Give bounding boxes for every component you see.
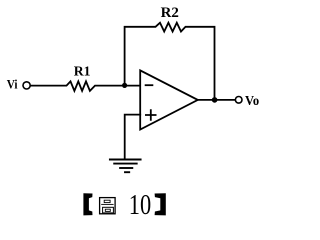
svg-text:R2: R2 (161, 5, 179, 21)
svg-text:10: 10 (129, 190, 151, 221)
svg-text:Vo: Vo (245, 93, 259, 108)
svg-text:Vi: Vi (7, 77, 18, 92)
svg-text:R1: R1 (74, 64, 91, 79)
